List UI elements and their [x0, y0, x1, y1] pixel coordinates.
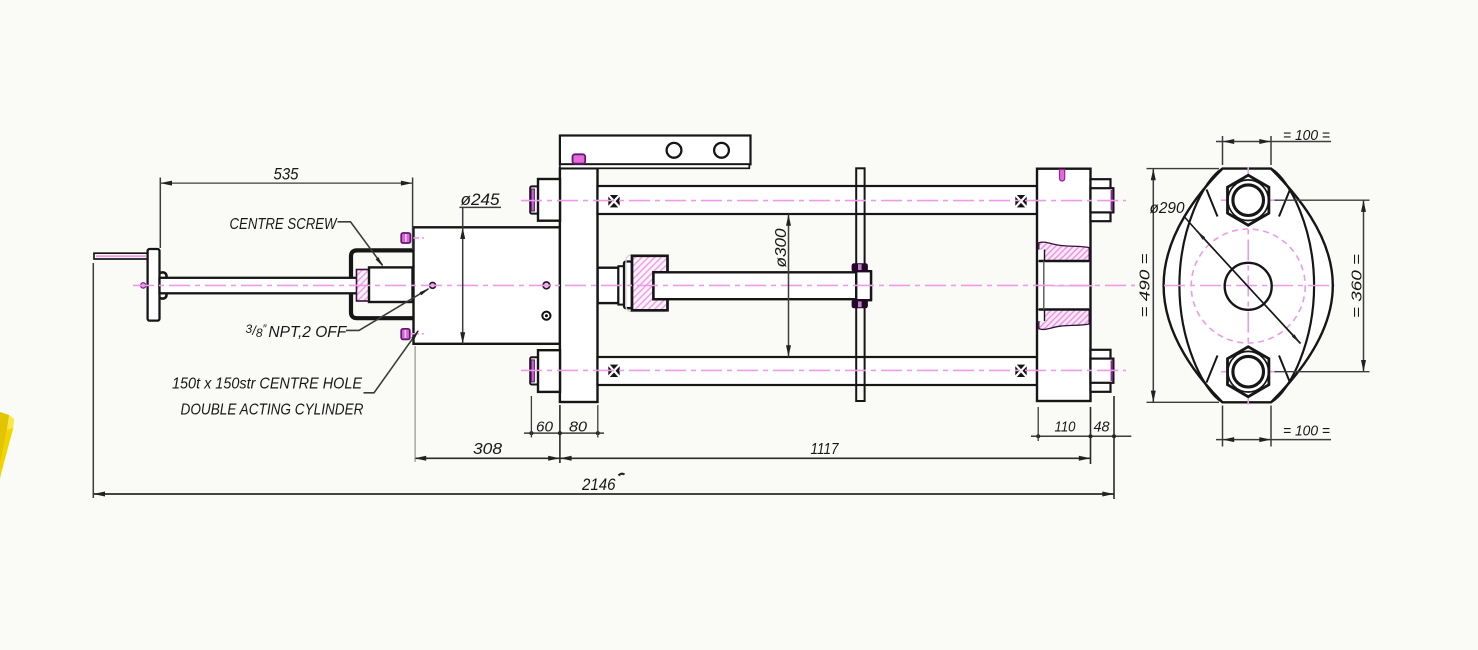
port hole circle on barrel: [430, 283, 436, 289]
end view: [1147, 136, 1370, 447]
dim 535 line: [160, 182, 412, 184]
tie rod section symbol TR: [1015, 195, 1026, 207]
rear cushion hatch bottom: [1039, 310, 1089, 330]
svg-text:308: 308: [473, 441, 502, 458]
flange magenta port dot: [141, 283, 146, 288]
svg-text:ø290: ø290: [1150, 200, 1185, 217]
front bottom bolt nut: [538, 350, 560, 392]
end flange inner contour right: [1271, 169, 1314, 403]
logo yellow corner: [0, 412, 14, 479]
main view: [94, 136, 1113, 403]
rear bottom bolt: [1091, 350, 1111, 392]
front top bolt nut: [538, 179, 560, 221]
front flange plate: [560, 168, 598, 402]
tie rod section symbol BR: [1015, 365, 1026, 377]
centre screw hatched gland: [357, 270, 370, 302]
dimensions: [93, 178, 1131, 500]
rod end block: [856, 271, 871, 300]
left flange boss: [159, 272, 167, 298]
bracket magenta port: [573, 154, 586, 163]
svg-text:= 360 =: = 360 =: [1350, 254, 1366, 318]
barrel face bolt: [542, 312, 550, 320]
rear flange plate: [1037, 169, 1091, 401]
end flange inner contour left: [1179, 169, 1222, 403]
centerlines: [96, 201, 1135, 371]
piston cap hatched: [632, 256, 668, 310]
end view centerline horizontal: [1164, 285, 1335, 287]
top mounting bracket: [560, 136, 751, 165]
left flange plate: [148, 249, 160, 321]
top tie rod: [598, 186, 1038, 214]
svg-text:1117: 1117: [811, 441, 840, 458]
main axis centerline: [133, 284, 1135, 286]
end flange outer contour: [1164, 169, 1333, 403]
rod end clip top: [852, 263, 868, 272]
dim 490: [1147, 168, 1220, 170]
piston ring 2: [624, 262, 632, 309]
svg-text:ø245: ø245: [461, 191, 501, 209]
svg-text:535: 535: [274, 165, 299, 184]
svg-text:150t x 150str CENTRE HOLE: 150t x 150str CENTRE HOLE: [172, 376, 363, 393]
piston rod left section: [160, 278, 359, 294]
piston rod right section: [654, 272, 872, 299]
top NPT port: [401, 233, 410, 243]
rod end clip bottom: [852, 300, 868, 309]
end dims: [1147, 136, 1370, 447]
top tie rod centerline: [521, 200, 1126, 202]
dim 360: [1275, 199, 1370, 201]
piston ghost outline: [626, 255, 669, 312]
nut pocket lines: [1207, 190, 1291, 383]
tie rod section symbol TL: [608, 195, 619, 207]
svg-text:CENTRE SCREW: CENTRE SCREW: [230, 216, 338, 233]
piston ring 1: [618, 266, 624, 304]
svg-text:48: 48: [1094, 419, 1110, 435]
bracket hole 2: [714, 143, 729, 158]
rear top bolt: [1091, 179, 1111, 221]
oe290 diagonal line: [1197, 231, 1301, 344]
left stub rod: [94, 253, 148, 259]
bottom hex nut: [1228, 347, 1269, 397]
dim 60 80: [524, 432, 604, 434]
dim 308 1117: [415, 457, 1091, 459]
top port centerline: [411, 237, 424, 239]
front top bolt washer: [530, 186, 538, 213]
leader npt: [346, 289, 429, 331]
svg-text:ø300: ø300: [773, 228, 790, 267]
leader centre hole: [364, 331, 419, 393]
top nut centerline: [1221, 199, 1278, 201]
leader centre screw: [338, 222, 383, 265]
tie rod section symbol BL: [608, 365, 619, 377]
rear plate top slot: [1060, 170, 1065, 182]
svg-text:= 100 =: = 100 =: [1283, 128, 1330, 144]
end view centerline vertical: [1247, 168, 1249, 409]
left stub rod centerline: [96, 255, 146, 257]
centre screw housing: [351, 250, 414, 318]
svg-text:= 490 =: = 490 =: [1138, 254, 1154, 318]
barrel face circle: [543, 282, 550, 289]
dim 100 bottom: [1222, 406, 1224, 447]
bottom tie rod: [598, 357, 1038, 385]
bolt circle dashed: [1191, 229, 1305, 343]
dim oe245: [460, 206, 502, 208]
dim oe300: [788, 214, 790, 357]
rear bore line: [1043, 261, 1045, 310]
bracket hole 1: [667, 143, 682, 158]
dim 110 48: [1031, 435, 1131, 437]
dim 100 top: [1222, 136, 1224, 165]
svg-text:80: 80: [569, 419, 587, 435]
bottom port centerline: [411, 333, 424, 335]
centre screw block: [369, 267, 413, 302]
svg-text:= 100 =: = 100 =: [1283, 423, 1330, 439]
svg-text:DOUBLE ACTING CYLINDER: DOUBLE ACTING CYLINDER: [181, 402, 364, 419]
dim 2146: [93, 493, 1114, 495]
top hex nut: [1228, 175, 1269, 225]
bottom tie rod centerline: [521, 369, 1126, 371]
bottom NPT port: [401, 329, 410, 340]
rear cushion hatch top: [1039, 242, 1089, 261]
piston stub: [598, 268, 619, 303]
svg-text:110: 110: [1055, 419, 1076, 435]
front bottom bolt washer: [530, 357, 538, 384]
mid support plate: [856, 168, 864, 401]
svg-text:2146: 2146: [581, 475, 616, 494]
cylinder barrel front (oe245): [414, 227, 561, 343]
centre hole: [1225, 263, 1272, 310]
svg-text:60: 60: [536, 419, 553, 435]
bottom nut centerline: [1221, 371, 1278, 373]
